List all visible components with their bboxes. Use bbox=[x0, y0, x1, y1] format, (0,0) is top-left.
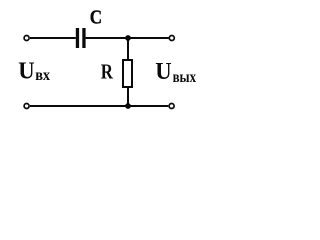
svg-text:вх: вх bbox=[35, 66, 50, 84]
svg-text:U: U bbox=[155, 59, 171, 85]
svg-text:R: R bbox=[101, 59, 114, 83]
svg-text:C: C bbox=[90, 7, 102, 29]
svg-text:U: U bbox=[18, 58, 34, 84]
svg-text:вых: вых bbox=[173, 68, 196, 86]
